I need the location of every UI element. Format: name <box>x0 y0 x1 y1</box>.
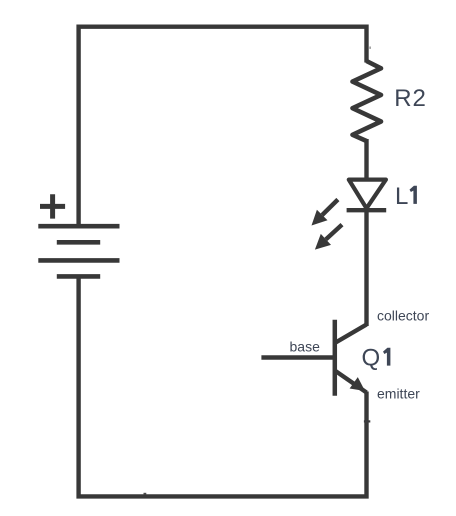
wire: battery - terminal down, across bottom rail, up to Q1 emitter <box>79 276 367 496</box>
svg-text:collector: collector <box>377 308 429 324</box>
transistor Q1 collector lead (diagonal) <box>335 325 367 344</box>
resistor R2 (zigzag) <box>353 61 382 141</box>
LED L1 triangle (anode) <box>349 180 386 209</box>
terminal tick on emitter wire <box>364 420 370 422</box>
battery B1 plate 4 (short, -) <box>57 274 100 279</box>
battery B1 plate 3 (long) <box>38 258 119 263</box>
LED L1 light arrow 2 <box>315 225 342 250</box>
terminal tick on bottom rail <box>144 493 147 495</box>
transistor Q1 emitter lead (diagonal) <box>335 371 367 393</box>
LED L1 light arrow 1 <box>312 200 338 226</box>
svg-text:R2: R2 <box>394 85 427 112</box>
transistor Q1 emitter arrowhead <box>350 377 365 391</box>
battery + polarity sign <box>40 194 65 218</box>
battery B1 plate 2 (short) <box>57 240 100 245</box>
svg-text:Q: Q <box>362 345 381 372</box>
svg-text:L: L <box>395 183 408 210</box>
LED L1 cathode bar <box>347 208 387 212</box>
transistor Q1 base bar <box>333 320 338 396</box>
wire: R2 to L1 <box>364 139 368 180</box>
wire: base lead <box>261 355 334 359</box>
wire: L1 cathode to Q1 collector <box>364 208 368 326</box>
battery B1 plate 1 (long, +) <box>38 224 119 229</box>
svg-text:emitter: emitter <box>377 386 420 402</box>
terminal tick on wire above R2 <box>369 47 370 49</box>
svg-text:base: base <box>290 338 321 354</box>
wire: battery + terminal up, across top rail, down to R2 <box>79 27 367 227</box>
